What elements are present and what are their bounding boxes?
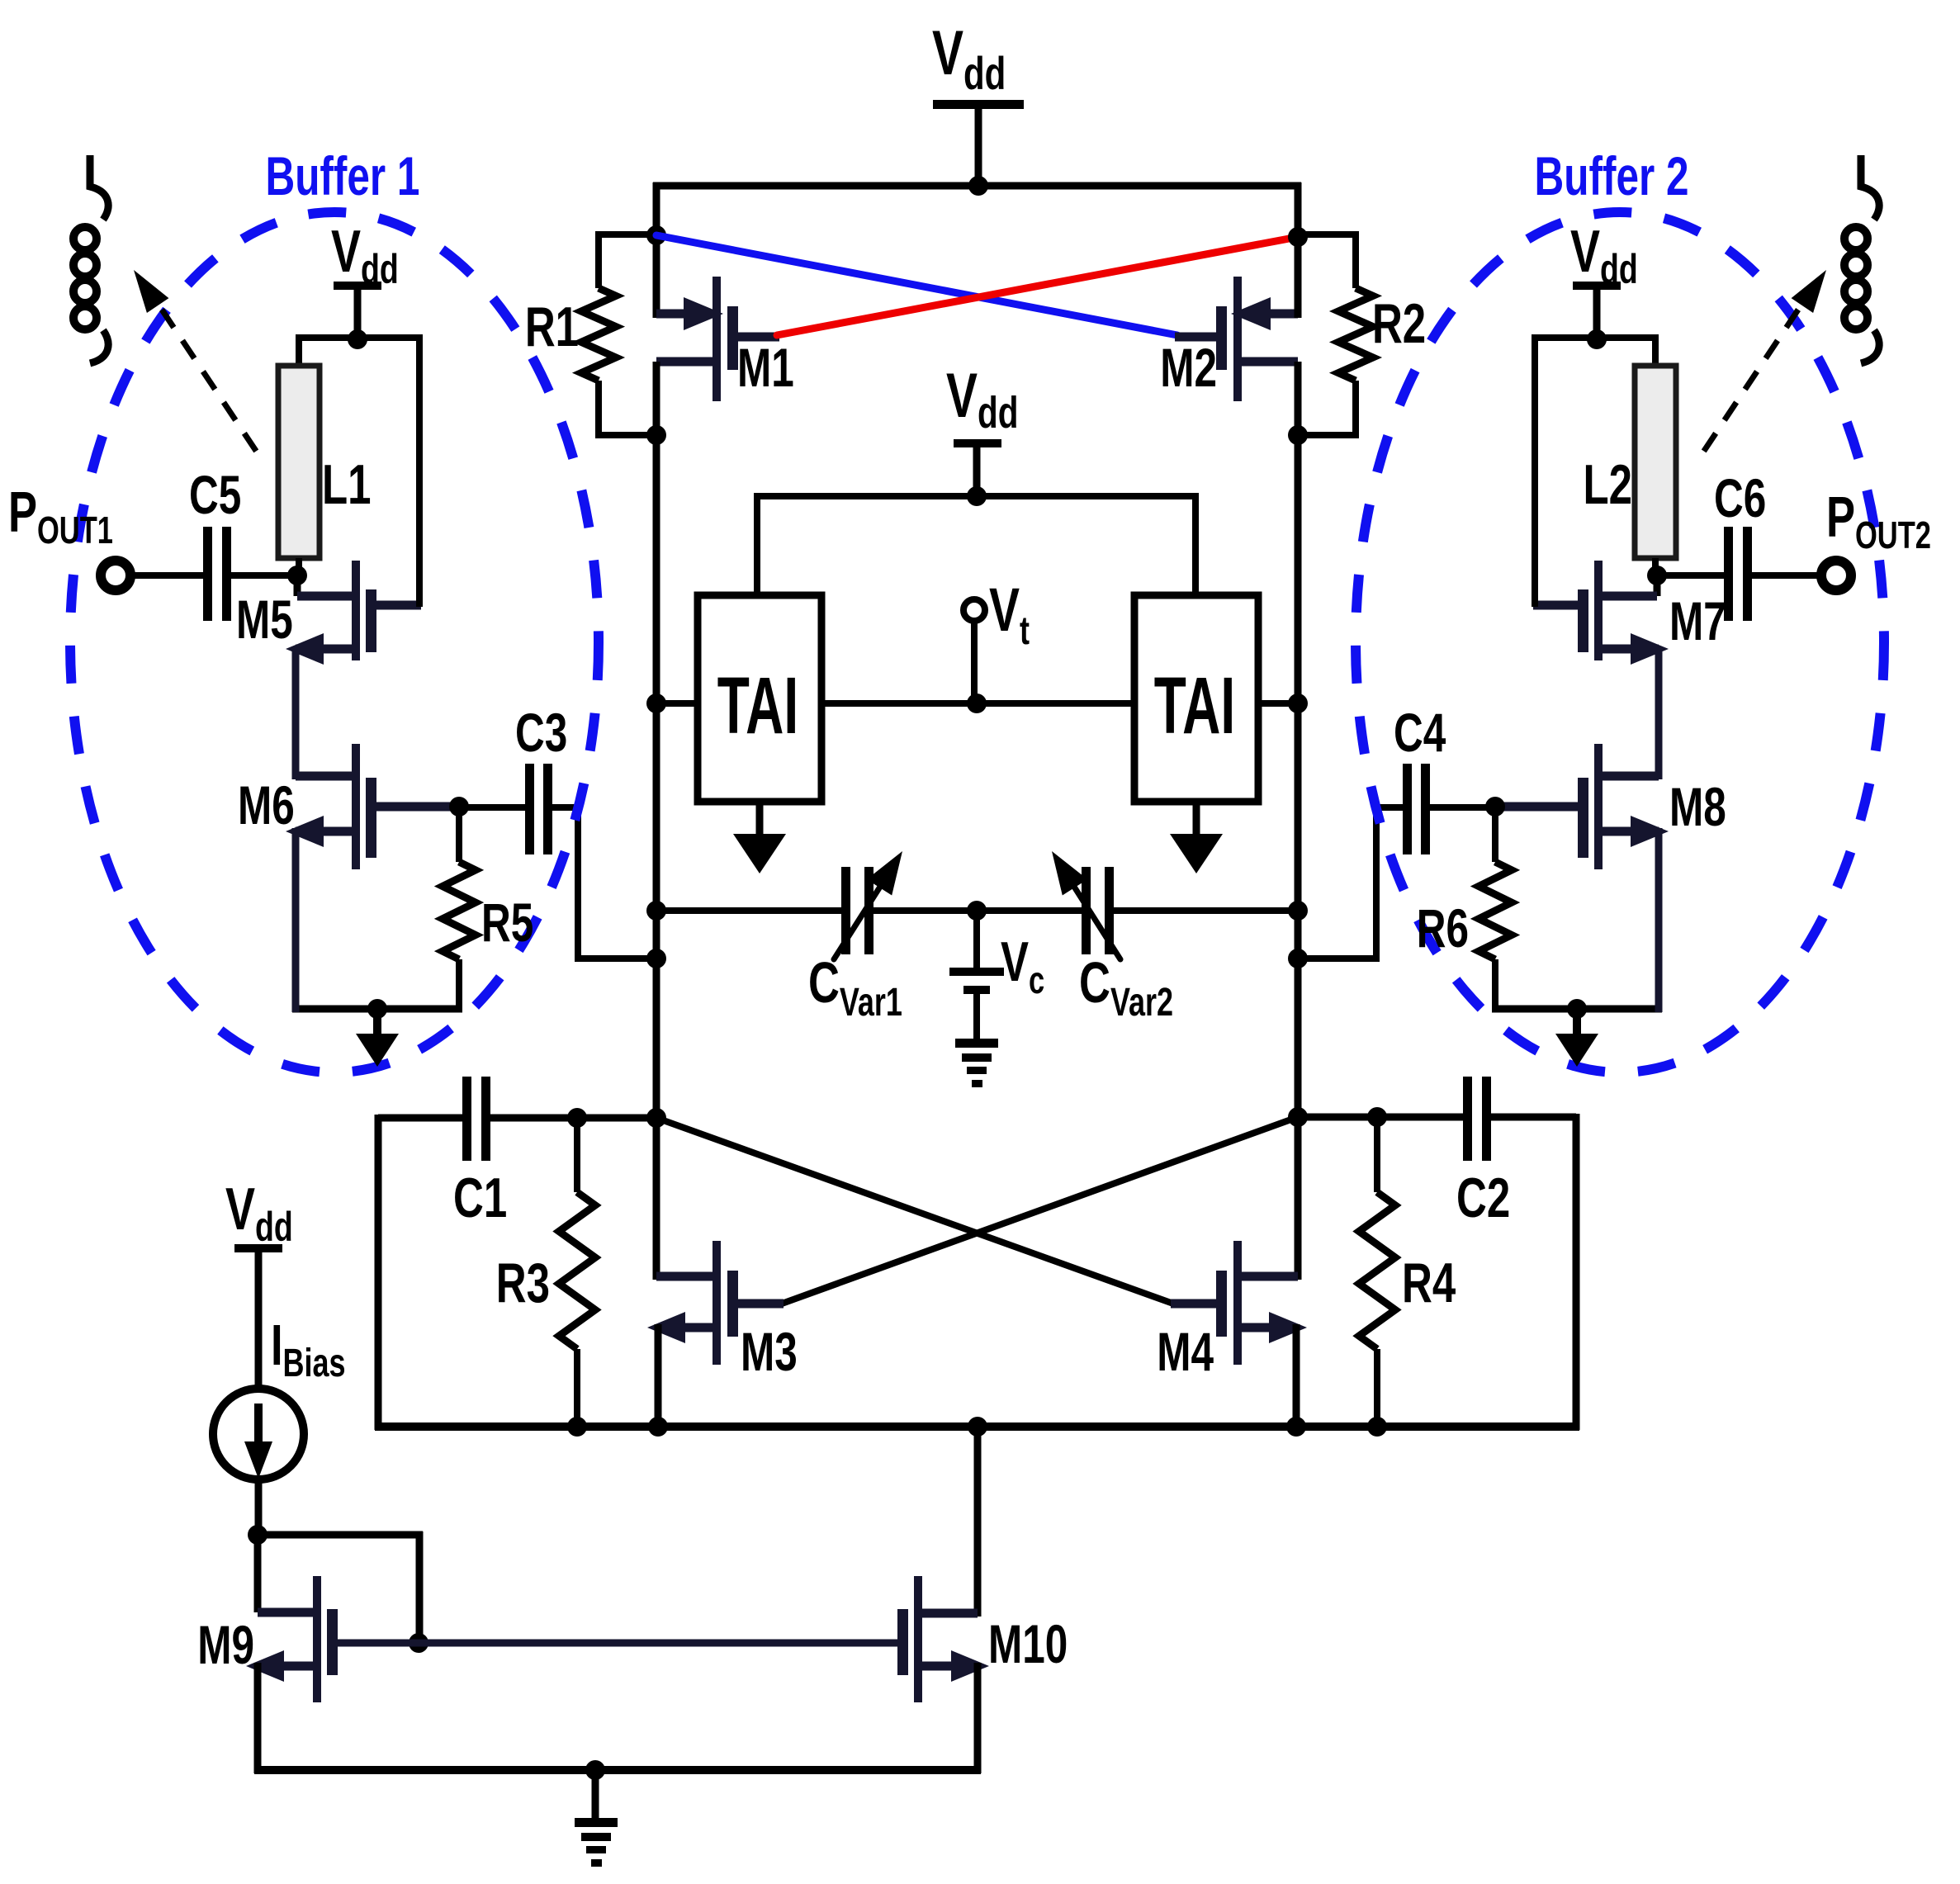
svg-text:M7: M7	[1669, 591, 1726, 652]
svg-text:M1: M1	[737, 338, 794, 399]
transistor M3 (NMOS cross-coupled)	[647, 1241, 798, 1430]
svg-text:TAI: TAI	[1154, 662, 1235, 750]
wire buffer1 top loop	[296, 329, 423, 349]
wire right drain-to-Vdd vertical (M2 source branch)	[1288, 182, 1308, 318]
transistor M10 (current mirror output)	[897, 1576, 1068, 1773]
svg-text:R2: R2	[1372, 292, 1426, 355]
capacitor C3	[459, 703, 656, 962]
svg-text:C6: C6	[1714, 468, 1766, 529]
enclosure Buffer 1 (dashed ellipse)	[70, 212, 599, 1072]
wire varactor row	[656, 901, 1298, 921]
svg-text:M5: M5	[236, 589, 293, 651]
block TAI (right tunable active inductor)	[1134, 595, 1258, 802]
wire buffer2 top loop	[1532, 329, 1659, 349]
wire buffer1 bottom	[292, 828, 462, 1019]
wire gate cross-coupling (blue, left node to M2 gate)	[656, 235, 1177, 335]
wire right tank vertical (M2 drain node)	[1288, 362, 1308, 1280]
svg-text:M8: M8	[1669, 777, 1726, 838]
wire cross-couple M3 gate (right top to left gate)	[782, 1117, 1298, 1304]
wire TAI supply rail	[754, 486, 1199, 506]
transistor M8 (buffer2 lower NMOS)	[1485, 744, 1726, 869]
wire M5 source to M6 drain	[292, 649, 300, 779]
svg-text:C2: C2	[1456, 1167, 1510, 1229]
capacitor C2 row	[1298, 1077, 1576, 1229]
resistor R3	[496, 1118, 595, 1430]
power symbol Vdd (middle supply)	[946, 361, 1018, 496]
ground (below left TAI)	[733, 802, 786, 873]
resistor R1	[525, 231, 656, 438]
wire left column	[375, 1115, 382, 1430]
wire left TAI drop	[754, 493, 760, 597]
wire cross-couple M4 gate (left top to right gate)	[656, 1118, 1173, 1304]
wire mirror source rail	[254, 1760, 981, 1780]
power symbol Vdd (buffer 1)	[331, 219, 399, 341]
wire TAI middle row	[656, 693, 1298, 713]
wire tail rail	[375, 1417, 1579, 1437]
svg-text:C4: C4	[1394, 703, 1446, 764]
transistor M6 (buffer1 lower NMOS)	[238, 744, 469, 869]
enclosure Buffer 2 (dashed ellipse)	[1356, 212, 1884, 1072]
wire M9 diode connection	[258, 1531, 428, 1653]
ground (buffer 1)	[356, 1009, 399, 1067]
resistor R2	[1298, 231, 1426, 438]
wire M5 gate to loop	[416, 334, 423, 607]
resistor R4	[1359, 1117, 1456, 1430]
label IBias	[271, 1314, 346, 1385]
wire left drain-to-Vdd vertical (M1 source branch)	[646, 182, 666, 318]
capacitor C1 row	[378, 1077, 656, 1229]
wire right TAI drop	[1192, 493, 1199, 597]
svg-text:C5: C5	[189, 465, 241, 526]
svg-text:R6: R6	[1417, 898, 1469, 959]
dashed arrow to right coil	[1697, 270, 1826, 461]
power symbol Vdd (bias)	[225, 1176, 293, 1390]
transistor M7 (buffer2 upper NMOS)	[1533, 561, 1726, 665]
inductor antenna coil (top right)	[1844, 155, 1879, 363]
svg-text:L1: L1	[322, 453, 372, 516]
dashed arrow to left coil	[134, 270, 263, 461]
wire gate cross-coupling (red, M1 gate to right node)	[777, 237, 1298, 335]
svg-text:Buffer 1: Buffer 1	[265, 146, 419, 207]
svg-text:M6: M6	[238, 775, 295, 836]
ground (below right TAI)	[1170, 802, 1223, 873]
svg-text:C1: C1	[453, 1167, 507, 1229]
wire M7 source to M8 drain	[1655, 649, 1663, 779]
wire buffer2 bottom	[1492, 828, 1662, 1019]
transistor M2 (PMOS)	[1160, 277, 1298, 401]
transistor M5 (buffer1 upper NMOS)	[236, 561, 421, 665]
inductor antenna coil (top left)	[73, 155, 108, 363]
resistor R5	[443, 807, 533, 1012]
svg-text:R1: R1	[525, 296, 579, 358]
power symbol Vdd (top supply)	[932, 18, 1024, 189]
svg-text:R4: R4	[1402, 1252, 1456, 1314]
capacitor C4	[1298, 703, 1495, 962]
wire IBias to M9 drain	[248, 1478, 267, 1545]
port POUT1 with capacitor C5	[8, 465, 307, 621]
varactor CVar1	[808, 851, 902, 1024]
node Vt (tuning voltage terminal)	[963, 575, 1030, 703]
svg-text:Buffer 2: Buffer 2	[1535, 146, 1689, 207]
wire M7 gate to loop	[1532, 334, 1538, 607]
wire tail to M10 drain	[974, 1427, 982, 1617]
ground (main earth symbol)	[575, 1770, 618, 1867]
wire left tank vertical (M1 drain node)	[646, 362, 666, 1280]
wire right column	[1573, 1114, 1580, 1430]
svg-text:M2: M2	[1160, 338, 1217, 399]
svg-text:M3: M3	[741, 1322, 798, 1383]
wire top Vdd rail	[653, 176, 1301, 196]
svg-text:M10: M10	[988, 1614, 1068, 1675]
svg-text:TAI: TAI	[717, 662, 798, 750]
label Buffer 1	[265, 146, 419, 207]
svg-text:C3: C3	[515, 703, 567, 764]
power symbol Vdd (buffer 2)	[1570, 219, 1638, 341]
svg-text:M4: M4	[1157, 1322, 1214, 1383]
block TAI (left tunable active inductor)	[698, 595, 821, 802]
transistor M4 (NMOS cross-coupled)	[1157, 1241, 1307, 1430]
svg-text:R5: R5	[481, 892, 533, 954]
svg-text:M9: M9	[197, 1615, 254, 1676]
transistor M1 (PMOS)	[656, 277, 794, 401]
transistor M9 (current mirror, diode connected)	[197, 1531, 338, 1773]
label Buffer 2	[1535, 146, 1689, 207]
svg-text:R3: R3	[496, 1252, 550, 1314]
inductor L1	[278, 338, 372, 577]
ground (below Vc, earth symbol)	[955, 1039, 998, 1087]
port POUT2 with capacitor C6	[1647, 468, 1931, 621]
svg-text:L2: L2	[1583, 453, 1632, 516]
inductor L2	[1583, 338, 1676, 577]
source Vc (varactor control voltage)	[949, 911, 1044, 1039]
varactor CVar2	[1052, 851, 1173, 1024]
current source IBias	[213, 1389, 304, 1479]
ground (buffer 2)	[1555, 1009, 1598, 1067]
wire gate M9 to gate M10	[338, 1640, 897, 1647]
resistor R6	[1417, 807, 1512, 1012]
